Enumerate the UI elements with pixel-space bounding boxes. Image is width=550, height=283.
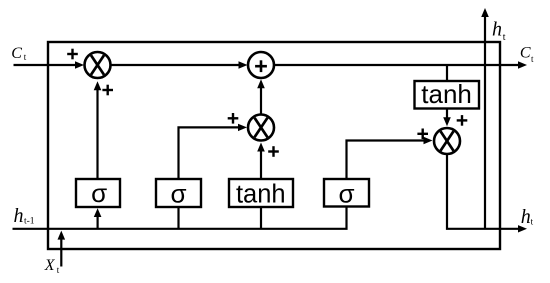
wire C_t line down into tanh-right [446, 65, 448, 81]
gate box sigma3 [324, 178, 369, 208]
wire tanh-mid up into X2 with arrow [257, 143, 265, 180]
label C_t input [11, 45, 26, 62]
gate box tanh middle [229, 179, 293, 208]
plus sign above-right of X3 [457, 115, 468, 126]
multiply node X1 [85, 52, 111, 78]
wire h_t-1 input line along bottom turning up into sigma3 [13, 206, 347, 229]
svg-text:σ: σ [91, 178, 107, 208]
wire sigma2 up and right into X2 with arrow [179, 124, 248, 179]
svg-text:h: h [14, 205, 24, 227]
svg-text:tanh: tanh [236, 180, 286, 208]
label h_t top [492, 18, 506, 42]
cell boundary rectangle [48, 42, 500, 249]
wire sigma2 down to h-line [177, 207, 179, 229]
svg-text:σ: σ [338, 178, 354, 208]
gate box tanh right [415, 79, 480, 109]
plus sign near top-left corner [67, 49, 78, 60]
label h_t output right [521, 206, 534, 228]
svg-text:t: t [503, 32, 506, 43]
gate box sigma1 [76, 178, 120, 208]
svg-text:σ: σ [170, 178, 186, 208]
plus sign below-right of X2 [268, 146, 279, 157]
svg-text:t-1: t-1 [24, 216, 35, 226]
wire tanh-right down into X3 with arrow [443, 109, 451, 127]
plus sign left of X3 input [417, 129, 428, 140]
wire h-line up into sigma1 with arrow [94, 208, 102, 229]
wire h_t branch upward with arrow [481, 8, 489, 229]
wire X3 down and right to h_t output with arrow [447, 155, 527, 233]
svg-text:X: X [44, 257, 56, 274]
wire tanh-mid down to h-line [260, 207, 262, 229]
gate box sigma2 [156, 178, 201, 208]
wire X1 to plus-circle with arrow [111, 61, 248, 68]
svg-text:C: C [520, 45, 531, 62]
multiply node X3 [434, 128, 460, 154]
plus sign left of X2 input [228, 113, 239, 124]
svg-text:h: h [521, 206, 531, 228]
wire X2 up into plus-circle with arrow [257, 79, 265, 114]
plus sign below X1 [102, 85, 113, 96]
svg-text:C: C [11, 45, 22, 62]
add node plus-circle [248, 52, 274, 78]
wire X_t input up into h-line with arrow [58, 231, 66, 267]
svg-text:tanh: tanh [421, 79, 472, 109]
wire plus-circle to C_t output with arrow [275, 61, 528, 68]
label X_t input bottom [44, 257, 60, 275]
wire C_t input with arrow into X1 [14, 61, 85, 68]
label h_t-1 input left [14, 205, 35, 227]
wire sigma3 up and right into X3 with arrow [347, 137, 433, 179]
wire sigma1 up to X1 with arrow [94, 81, 102, 179]
multiply node X2 [248, 115, 274, 141]
label C_t output [520, 45, 534, 64]
svg-text:h: h [492, 18, 502, 40]
